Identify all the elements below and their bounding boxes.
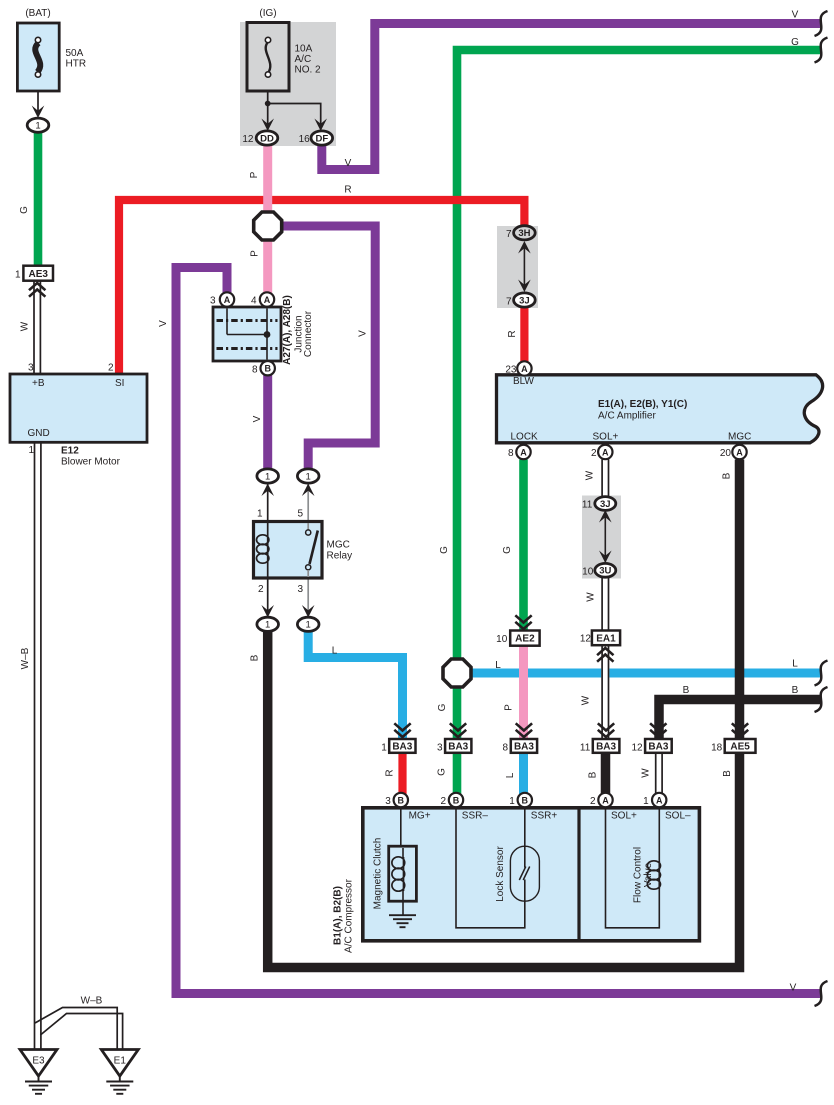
svg-text:3J: 3J <box>519 295 530 306</box>
svg-text:A/C Amplifier: A/C Amplifier <box>598 411 656 422</box>
svg-text:7: 7 <box>506 297 512 308</box>
svg-text:Flow Control: Flow Control <box>633 847 644 903</box>
svg-text:EA1: EA1 <box>596 633 616 644</box>
svg-text:DF: DF <box>315 133 328 144</box>
svg-text:2: 2 <box>258 584 264 595</box>
svg-text:B: B <box>683 685 690 696</box>
svg-text:BLW: BLW <box>513 376 534 387</box>
svg-text:A: A <box>656 795 663 805</box>
svg-text:G: G <box>19 206 30 214</box>
svg-text:AE5: AE5 <box>730 742 750 753</box>
svg-text:A: A <box>521 364 528 374</box>
svg-text:Lock Sensor: Lock Sensor <box>495 846 506 902</box>
svg-text:SSR–: SSR– <box>462 811 489 822</box>
svg-text:AE3: AE3 <box>28 269 48 280</box>
svg-text:10: 10 <box>582 567 594 578</box>
svg-text:V: V <box>158 320 169 327</box>
svg-text:8: 8 <box>252 365 258 376</box>
svg-text:SOL–: SOL– <box>665 811 691 822</box>
svg-text:2: 2 <box>108 363 114 374</box>
svg-text:12: 12 <box>631 743 643 754</box>
svg-text:3: 3 <box>385 796 391 807</box>
svg-text:BA3: BA3 <box>514 742 534 753</box>
svg-text:E3: E3 <box>32 1056 45 1067</box>
svg-text:L: L <box>332 646 338 657</box>
svg-text:3: 3 <box>437 743 443 754</box>
svg-text:L: L <box>792 659 798 670</box>
svg-text:A/C Compressor: A/C Compressor <box>344 878 355 953</box>
svg-text:NO. 2: NO. 2 <box>295 65 322 76</box>
svg-text:P: P <box>250 250 261 257</box>
svg-text:DD: DD <box>260 133 274 144</box>
svg-text:V: V <box>252 415 263 422</box>
svg-text:HTR: HTR <box>66 59 87 70</box>
svg-text:A27(A), A28(B): A27(A), A28(B) <box>282 295 293 365</box>
svg-text:B: B <box>522 795 529 805</box>
svg-text:G: G <box>437 703 448 711</box>
svg-text:B: B <box>250 654 261 661</box>
svg-text:W–B: W–B <box>81 996 103 1007</box>
svg-text:11: 11 <box>580 743 591 754</box>
svg-text:Connector: Connector <box>303 310 314 357</box>
svg-text:1: 1 <box>643 796 649 807</box>
svg-text:3J: 3J <box>600 499 611 510</box>
svg-text:B: B <box>588 771 599 778</box>
svg-text:SOL+: SOL+ <box>593 432 619 443</box>
svg-text:23: 23 <box>505 365 517 376</box>
svg-text:5: 5 <box>297 509 303 520</box>
svg-text:BA3: BA3 <box>392 742 412 753</box>
svg-text:G: G <box>439 546 450 554</box>
svg-text:3: 3 <box>297 584 303 595</box>
svg-text:P: P <box>249 171 260 178</box>
svg-text:B: B <box>264 364 271 374</box>
svg-text:8: 8 <box>508 448 514 459</box>
svg-text:8: 8 <box>502 743 508 754</box>
svg-text:W: W <box>586 592 597 602</box>
svg-text:3U: 3U <box>599 566 611 577</box>
svg-text:G: G <box>791 37 799 48</box>
svg-text:W–B: W–B <box>20 647 31 669</box>
svg-text:1: 1 <box>306 620 311 631</box>
svg-text:G: G <box>502 546 513 554</box>
svg-text:V: V <box>790 983 797 994</box>
svg-text:Valve: Valve <box>643 862 654 887</box>
svg-text:12: 12 <box>580 634 592 645</box>
svg-text:1: 1 <box>265 620 270 631</box>
svg-text:MGC: MGC <box>728 432 751 443</box>
svg-text:R: R <box>344 185 351 196</box>
svg-text:A/C: A/C <box>295 54 312 65</box>
svg-text:BA3: BA3 <box>596 742 616 753</box>
svg-text:V: V <box>792 10 799 21</box>
svg-text:1: 1 <box>28 445 34 456</box>
svg-text:SSR+: SSR+ <box>531 811 558 822</box>
svg-text:B: B <box>792 685 799 696</box>
svg-text:B: B <box>722 770 733 777</box>
svg-text:3H: 3H <box>518 228 530 239</box>
svg-text:E1(A), E2(B), Y1(C): E1(A), E2(B), Y1(C) <box>598 399 687 410</box>
svg-text:10: 10 <box>496 634 508 645</box>
svg-text:B1(A), B2(B): B1(A), B2(B) <box>333 886 344 945</box>
svg-text:1: 1 <box>381 743 387 754</box>
svg-text:2: 2 <box>591 448 597 459</box>
svg-text:BA3: BA3 <box>448 742 468 753</box>
svg-text:W: W <box>585 470 596 480</box>
svg-text:A: A <box>736 447 743 457</box>
svg-text:BA3: BA3 <box>648 742 668 753</box>
svg-text:R: R <box>385 769 396 776</box>
svg-text:E12: E12 <box>61 446 79 457</box>
svg-text:+B: +B <box>32 378 45 389</box>
svg-text:3: 3 <box>210 296 216 307</box>
svg-text:(BAT): (BAT) <box>25 8 50 19</box>
svg-text:11: 11 <box>582 500 593 511</box>
svg-text:Relay: Relay <box>327 551 353 562</box>
svg-text:B: B <box>722 472 733 479</box>
svg-text:(IG): (IG) <box>259 8 276 19</box>
svg-text:P: P <box>504 704 515 711</box>
svg-text:AE2: AE2 <box>515 634 535 645</box>
svg-text:R: R <box>507 330 518 337</box>
svg-text:LOCK: LOCK <box>511 432 539 443</box>
svg-text:W: W <box>20 321 31 331</box>
svg-text:16: 16 <box>299 134 311 145</box>
svg-text:50A: 50A <box>66 48 84 59</box>
svg-text:V: V <box>358 330 369 337</box>
svg-text:L: L <box>495 660 501 671</box>
svg-text:10A: 10A <box>295 44 313 55</box>
svg-text:1: 1 <box>257 509 263 520</box>
svg-text:18: 18 <box>711 743 723 754</box>
svg-text:W: W <box>581 695 592 705</box>
svg-text:W: W <box>641 768 652 778</box>
svg-text:B: B <box>453 795 460 805</box>
svg-text:MGC: MGC <box>327 540 350 551</box>
svg-text:A: A <box>520 447 527 457</box>
svg-text:1: 1 <box>35 121 40 132</box>
svg-text:1: 1 <box>306 471 311 482</box>
svg-text:B: B <box>398 795 405 805</box>
svg-text:1: 1 <box>509 796 515 807</box>
svg-text:1: 1 <box>15 270 21 281</box>
svg-text:G: G <box>437 768 448 776</box>
svg-text:GND: GND <box>28 428 50 439</box>
svg-text:SOL+: SOL+ <box>611 811 637 822</box>
svg-text:4: 4 <box>251 296 257 307</box>
svg-text:A: A <box>602 447 609 457</box>
svg-text:A: A <box>602 795 609 805</box>
svg-text:E1: E1 <box>114 1056 127 1067</box>
svg-text:L: L <box>505 772 516 778</box>
svg-text:A: A <box>224 295 231 305</box>
svg-text:2: 2 <box>440 796 446 807</box>
svg-text:12: 12 <box>242 134 254 145</box>
svg-text:MG+: MG+ <box>409 811 431 822</box>
svg-text:SI: SI <box>115 378 124 389</box>
svg-text:V: V <box>345 158 352 169</box>
svg-text:3: 3 <box>28 363 34 374</box>
svg-text:20: 20 <box>720 448 732 459</box>
svg-text:2: 2 <box>590 796 596 807</box>
svg-text:7: 7 <box>506 229 512 240</box>
svg-text:Magnetic Clutch: Magnetic Clutch <box>373 838 384 910</box>
svg-text:1: 1 <box>265 471 270 482</box>
svg-text:Blower Motor: Blower Motor <box>61 457 121 468</box>
svg-text:A: A <box>264 295 271 305</box>
